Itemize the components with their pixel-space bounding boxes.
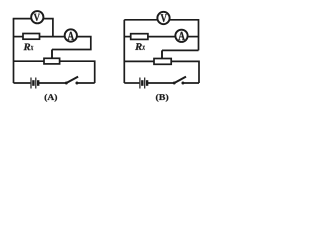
wire: bottom row left (A): [14, 82, 31, 84]
wire: Rx row left (A): [14, 36, 24, 38]
label (B): [156, 94, 168, 102]
wire: voltmeter right lead down to node (A): [43, 19, 53, 37]
ammeter A1 (A): [65, 29, 77, 41]
ammeter A2 (B): [175, 30, 187, 42]
wire: rheostat row left (B): [124, 60, 154, 62]
wire: slider line (B): [162, 49, 199, 51]
wire: rheostat row right and right rail (A): [60, 61, 95, 83]
wire: ammeter right to rail junction (B): [188, 36, 199, 38]
battery GB1 (A): [31, 78, 36, 89]
rheostat R2 (B): [154, 59, 171, 65]
wire: voltmeter row left (B): [124, 19, 157, 21]
wire: rheostat row right and right lower rail (B): [171, 61, 199, 83]
wire: Rx row left (B): [124, 36, 130, 38]
wire: slider stem (A): [51, 50, 53, 59]
wire: bottom row right (B): [183, 82, 199, 84]
wire: battery to switch (A): [39, 82, 67, 84]
battery GB2 (B): [140, 78, 145, 89]
label Rx (A): [24, 44, 31, 51]
wire: slider stem (B): [161, 50, 163, 58]
voltmeter V1 (A): [31, 11, 43, 23]
wire: bottom row left (B): [124, 82, 139, 84]
wire: Rx to ammeter (B): [148, 36, 176, 38]
wire: voltmeter right lead and right upper rail (B): [170, 20, 199, 51]
resistor Rx (A): [23, 34, 40, 40]
resistor Rx (B): [131, 34, 148, 40]
switch S2 (B): [173, 82, 176, 85]
wire: voltmeter row left (A): [13, 18, 32, 20]
wire: ammeter right, down, left to slider (A): [52, 37, 91, 50]
wire: rheostat row left (A): [14, 60, 45, 62]
wire: Rx to ammeter (A): [40, 36, 65, 38]
wire: bottom row right (A): [77, 82, 95, 84]
wire: battery to switch (B): [148, 82, 175, 84]
rheostat R1 (A): [44, 58, 60, 64]
wire: left rail (B): [123, 20, 125, 83]
switch S1 (A): [65, 82, 68, 85]
voltmeter V2 (B): [157, 12, 169, 24]
wire: left rail (A): [13, 19, 15, 83]
label (A): [45, 94, 57, 102]
label Rx (B): [135, 43, 142, 50]
